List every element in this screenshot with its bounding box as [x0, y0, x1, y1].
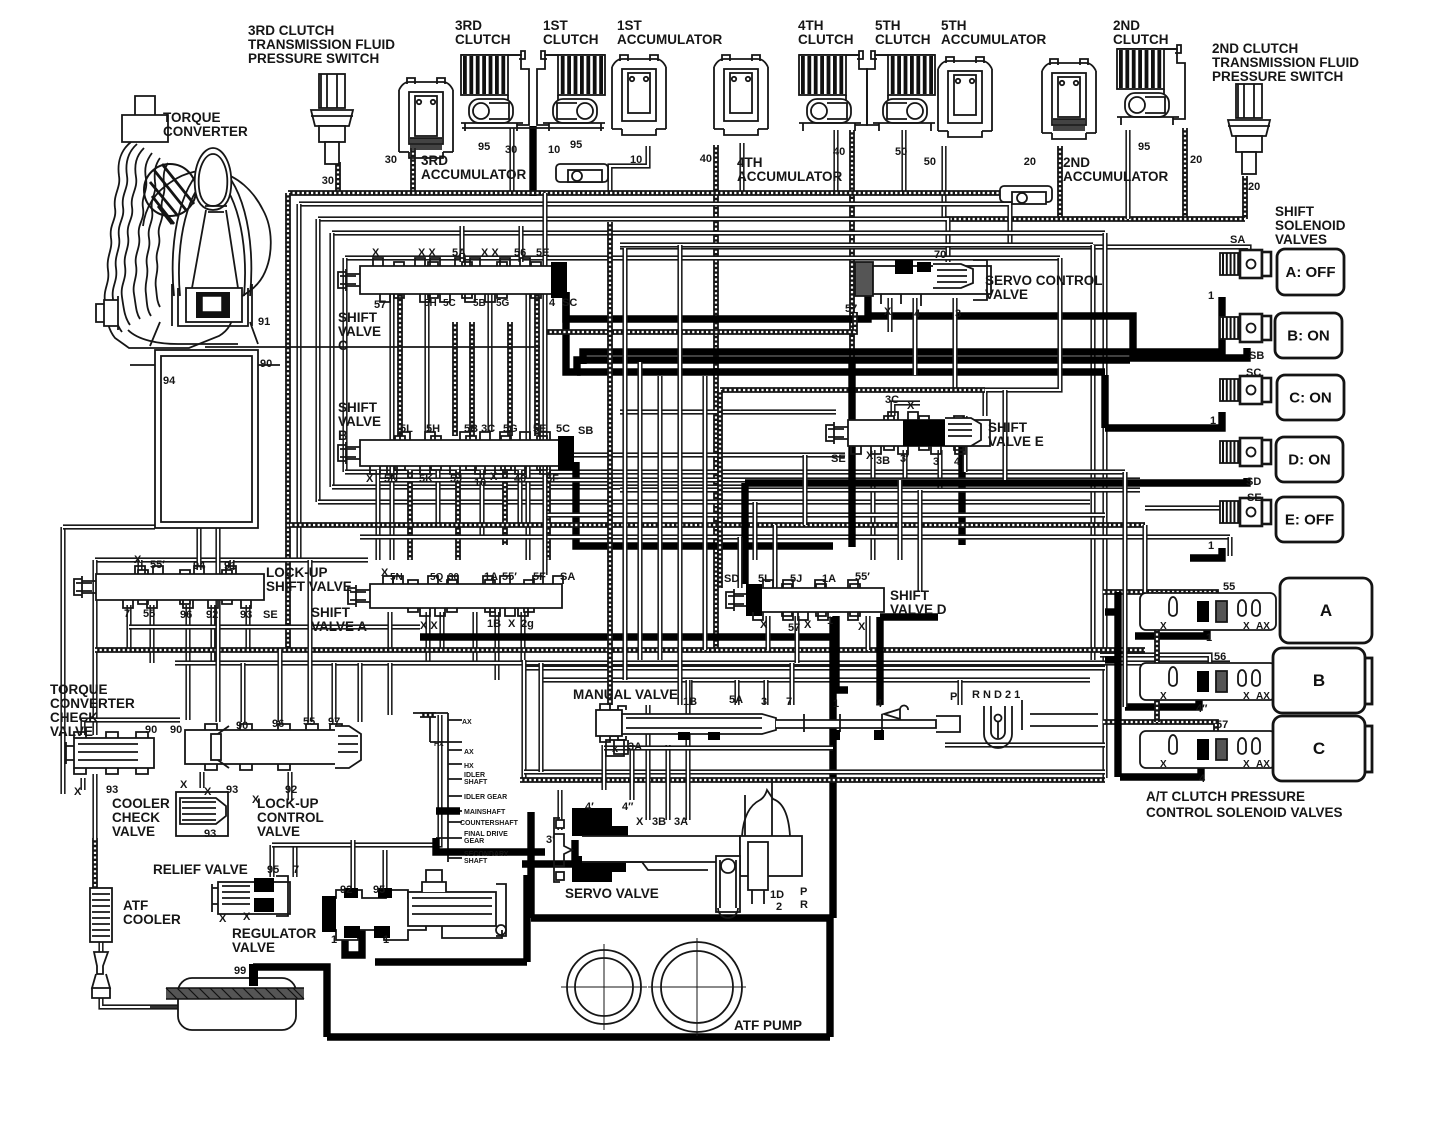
svg-text:SB: SB: [578, 425, 593, 437]
wire SD heavy drop: [741, 483, 748, 584]
wire 2nd pressure switch drop: [1242, 176, 1248, 219]
wire valve C drop 5: [534, 292, 540, 436]
svg-text:X: X: [866, 450, 874, 462]
svg-text:1: 1: [1206, 632, 1212, 644]
svg-text:30: 30: [322, 175, 334, 187]
wire SC heavy staircase: [566, 292, 1130, 372]
svg-text:SD: SD: [724, 573, 739, 585]
wire hatch 390: [720, 387, 985, 393]
wire center vertical 660: [657, 376, 662, 660]
svg-text:X: X: [204, 786, 212, 798]
wire lockup 94 port: [196, 528, 201, 570]
svg-text:X: X: [508, 618, 516, 630]
wire reg 92: [350, 840, 355, 895]
svg-text:99: 99: [234, 965, 246, 977]
wire valve D drop 2: [794, 616, 799, 663]
svg-text:95: 95: [373, 884, 385, 896]
svg-text:20: 20: [1248, 181, 1260, 193]
wire valve A bottom 0: [387, 612, 392, 650]
svg-text:5C: 5C: [443, 298, 456, 309]
svg-text:2g: 2g: [521, 618, 534, 630]
wire servo 4 drop b: [629, 745, 634, 800]
wire servo drop 3a: [685, 680, 690, 820]
wire bus 472: [345, 469, 1125, 474]
svg-text:3A: 3A: [628, 741, 642, 753]
shift valve A: [348, 576, 563, 616]
wire valve C drop 1: [397, 292, 403, 436]
svg-text:1A: 1A: [484, 571, 498, 583]
wire heavy bus 637: [420, 633, 833, 640]
wire valve B drop 3: [435, 470, 440, 525]
wire solenoid C 1 feed: [1105, 412, 1222, 428]
svg-text:HX: HX: [434, 741, 444, 748]
wire servo frame right heavy: [829, 617, 836, 918]
svg-text:94: 94: [163, 375, 176, 387]
svg-text:ATF PUMP: ATF PUMP: [734, 1018, 802, 1033]
svg-text:P: P: [800, 886, 807, 898]
svg-text:3: 3: [933, 456, 939, 468]
svg-text:10: 10: [630, 154, 642, 166]
wire 5th clutch drop a: [849, 130, 855, 360]
svg-text:5H: 5H: [426, 423, 440, 435]
wire SA feed bus: [620, 247, 1249, 262]
wire pump to servo frame: [826, 918, 833, 1037]
shift valve D: [726, 580, 884, 620]
wire tank bottom link: [63, 524, 155, 529]
wire valve D heavy 1: [836, 616, 848, 690]
svg-text:40: 40: [514, 473, 526, 485]
wire bus 502: [318, 499, 1090, 504]
svg-text:X: X: [1243, 621, 1250, 632]
wire hatch bus 525: [290, 522, 1145, 528]
solenoid box E: [1276, 497, 1343, 542]
solenoid SC: [1220, 376, 1271, 404]
wire gear feed vertical: [447, 713, 449, 862]
wire servo drop 3b: [665, 745, 670, 820]
svg-text:SE: SE: [1247, 492, 1262, 504]
wire left frame vertical: [60, 527, 65, 794]
wire relief 7: [292, 845, 297, 877]
svg-text:95: 95: [570, 139, 582, 151]
svg-text:20: 20: [1024, 156, 1036, 168]
svg-text:5Q: 5Q: [430, 572, 444, 583]
svg-text:92: 92: [285, 784, 297, 796]
accumulator 2nd: [1042, 59, 1096, 139]
svg-text:4′: 4′: [585, 801, 594, 813]
svg-text:5B 3C: 5B 3C: [464, 423, 495, 435]
wire bus 480: [380, 477, 1140, 482]
A/T pressure control valve B: [1140, 663, 1276, 700]
wire bus 5: [620, 242, 1093, 247]
solenoid box A: [1277, 249, 1344, 295]
svg-text:5G: 5G: [496, 298, 510, 309]
ATF pump: [561, 938, 746, 1036]
manual valve: [596, 704, 960, 754]
wire valve C drop 7: [487, 292, 492, 432]
svg-text:5H: 5H: [424, 298, 437, 309]
solenoid box D: [1276, 437, 1343, 482]
svg-text:93: 93: [240, 609, 252, 621]
wire right vertical 1157: [1154, 592, 1160, 722]
svg-text:4: 4: [1199, 773, 1206, 785]
wire bottom bus: [327, 1033, 830, 1040]
wire clutch shelf: [462, 127, 604, 129]
svg-text:X: X: [180, 779, 188, 791]
wire right vertical 1125: [1122, 472, 1127, 707]
wire bus 4: [332, 230, 1105, 235]
svg-text:4: 4: [954, 456, 961, 468]
wire servo 4 drop a: [601, 745, 606, 790]
svg-text:X X: X X: [420, 620, 438, 632]
svg-text:X X: X X: [418, 247, 436, 259]
svg-text:91: 91: [224, 560, 236, 572]
wire center vertical 900: [897, 480, 902, 560]
svg-text:3B: 3B: [652, 816, 666, 828]
wire final drive heavy: [436, 838, 545, 852]
wire 56 feed: [1100, 655, 1210, 668]
wire valve B drop 8: [545, 470, 551, 560]
svg-text:30: 30: [505, 144, 517, 156]
A/T pressure control valve box C: [1273, 716, 1372, 781]
svg-text:4″: 4″: [1196, 703, 1208, 715]
wire heavy 372: [577, 368, 1105, 375]
wire valve C drop 6: [424, 292, 429, 432]
wire SA long vertical: [542, 193, 547, 575]
wire valve A bottom 1B: [494, 612, 499, 680]
svg-text:B: ON: B: ON: [1287, 328, 1330, 345]
svg-text:X X: X X: [481, 247, 499, 259]
wire drop to E: [1227, 537, 1232, 556]
svg-text:C: C: [1313, 739, 1325, 758]
wire valve D drop 3: [865, 616, 870, 650]
wire vertical 360 down: [357, 663, 362, 722]
wire relief 95: [269, 845, 274, 877]
wire lockup 91 port: [229, 560, 234, 570]
svg-text:4: 4: [876, 698, 883, 710]
wire left vertical 3: [315, 219, 320, 502]
svg-text:95: 95: [1138, 141, 1150, 153]
svg-text:SE: SE: [263, 609, 278, 621]
shift valve E actuator: [903, 418, 981, 446]
svg-text:55′: 55′: [502, 571, 517, 583]
wire top bus 2: [299, 204, 1010, 247]
wire hatch vertical 720: [717, 390, 723, 588]
svg-text:50: 50: [924, 156, 936, 168]
wire manual 7 port: [789, 663, 794, 705]
wire tc check feed: [83, 720, 180, 735]
wire 99 link: [253, 967, 327, 1037]
svg-text:95: 95: [267, 864, 279, 876]
svg-text:5L: 5L: [400, 423, 413, 435]
svg-text:x: x: [612, 743, 619, 755]
wire bus 745: [945, 742, 1105, 747]
svg-text:5G: 5G: [503, 423, 518, 435]
wire 1st accumulator drop: [610, 146, 648, 193]
svg-text:X: X: [366, 473, 374, 485]
wire 1st clutch drop: [529, 126, 536, 196]
99 stub: [249, 964, 258, 986]
A/T pressure control valve A: [1140, 593, 1276, 630]
wire valve E top port: [962, 416, 967, 472]
torque converter check valve: [66, 732, 154, 774]
svg-text:A: A: [1320, 601, 1332, 620]
svg-text:90: 90: [145, 724, 157, 736]
svg-text:5A: 5A: [452, 247, 466, 259]
wire valve C top port 2: [518, 226, 523, 262]
svg-text:56: 56: [514, 247, 526, 259]
wire cooler feed hatch: [92, 838, 98, 888]
svg-text:56: 56: [1214, 651, 1226, 663]
wire A heavy 1: [1135, 625, 1207, 636]
wire valve C drop 4: [507, 322, 513, 436]
wire bus 772: [524, 769, 1105, 774]
wire 4th accumulator drop: [739, 143, 744, 193]
svg-text:5F: 5F: [533, 571, 546, 583]
wire bus 748: [604, 745, 833, 750]
svg-text:55: 55: [1223, 581, 1235, 593]
accumulator 4th: [714, 55, 768, 135]
wire lc port 55: [307, 560, 312, 722]
wire 57 hatch to servo control: [545, 312, 855, 332]
shift valve E: [826, 412, 990, 454]
servo control valve: [855, 260, 991, 306]
svg-text:57: 57: [374, 299, 386, 311]
svg-text:5J: 5J: [790, 573, 802, 585]
wire hx corner: [420, 712, 436, 718]
svg-text:40: 40: [700, 153, 712, 165]
svg-text:10: 10: [474, 477, 486, 489]
svg-text:57: 57: [845, 303, 857, 315]
svg-text:X: X: [907, 400, 915, 412]
wire reg port 1 u: [345, 930, 362, 955]
svg-text:2: 2: [776, 901, 782, 913]
svg-text:3C: 3C: [885, 394, 899, 406]
wire lc port 97: [331, 663, 336, 722]
wire bus 5c: [620, 255, 1060, 260]
wire left vertical hatch: [285, 193, 291, 648]
wire lockup bottom 55: [149, 605, 154, 663]
clutch 1st: [537, 51, 605, 131]
wire valve B drop 1: [375, 470, 380, 560]
svg-text:X: X: [858, 621, 866, 633]
wire SD to solenoid D: [745, 478, 1247, 483]
svg-text:7: 7: [786, 696, 792, 708]
A/T pressure control valve box A: [1280, 578, 1372, 643]
wire left vertical 4: [329, 233, 334, 487]
svg-text:30: 30: [448, 572, 460, 583]
wire SB heavy run: [576, 462, 833, 546]
clutch 2nd: [1117, 45, 1185, 125]
wire heavy vertical 852: [848, 362, 855, 547]
wire valve E drop 2: [870, 450, 875, 560]
wire lc port 96: [277, 650, 282, 722]
svg-text:MANUAL VALVE: MANUAL VALVE: [573, 687, 678, 702]
wire valve E drop 4: [937, 450, 942, 490]
svg-text:5E: 5E: [533, 423, 546, 435]
wire relief top link: [272, 715, 440, 845]
svg-text:5C: 5C: [556, 423, 570, 435]
svg-text:1: 1: [827, 615, 833, 627]
svg-text:96: 96: [180, 609, 192, 621]
wire funnel to pan: [101, 998, 178, 1007]
wire cooler to funnel: [98, 942, 103, 952]
solenoid SA: [1220, 250, 1271, 278]
svg-text:93: 93: [204, 828, 216, 840]
svg-text:5A: 5A: [729, 694, 743, 706]
wire valve E SE drop: [849, 450, 854, 490]
wire servo ctl port 3: [952, 298, 957, 390]
svg-text:IDLER GEAR: IDLER GEAR: [464, 794, 507, 801]
svg-text:1: 1: [833, 698, 839, 710]
svg-text:AX: AX: [1256, 621, 1270, 632]
svg-text:1B: 1B: [487, 618, 501, 630]
svg-text:1: 1: [1210, 415, 1216, 427]
svg-text:X: X: [636, 816, 644, 828]
wire gear stub up: [429, 713, 431, 742]
solenoid SD: [1220, 438, 1271, 466]
svg-text:96: 96: [272, 718, 284, 730]
svg-text:3′: 3′: [546, 834, 555, 846]
svg-text:X: X: [1160, 759, 1167, 770]
wire bus 5b: [345, 255, 620, 260]
wire bus 627: [129, 624, 420, 629]
wire gear stubs: [413, 713, 462, 858]
svg-text:97: 97: [328, 716, 340, 728]
svg-text:X: X: [884, 306, 892, 318]
svg-text:B: B: [1313, 671, 1325, 690]
wire lockup bottom 93: [245, 605, 250, 650]
svg-text:57: 57: [1216, 719, 1228, 731]
svg-text:5B: 5B: [473, 298, 486, 309]
svg-text:90: 90: [170, 724, 182, 736]
clutch 4th: [799, 51, 867, 131]
svg-text:92: 92: [206, 609, 218, 621]
wire center vertical 755: [752, 502, 757, 560]
svg-text:90: 90: [260, 358, 272, 370]
wire 3rd accumulator drop: [410, 148, 416, 193]
wire vertical 390 down: [387, 663, 392, 715]
svg-text:1D: 1D: [770, 889, 784, 901]
accumulator 1st: [612, 55, 666, 135]
wire center vertical 680: [677, 245, 682, 705]
wire heavy feed vertical: [1114, 592, 1121, 777]
svg-text:SC: SC: [562, 297, 577, 309]
wire right vertical 1145: [1142, 525, 1147, 592]
svg-text:X: X: [1243, 759, 1250, 770]
wire valve B drop 2: [407, 470, 413, 560]
wire solenoid E 1: [1190, 548, 1222, 558]
wire left vertical to cooler check: [92, 774, 97, 838]
wire bus 680: [540, 677, 1090, 682]
wire lc port 90: [240, 663, 245, 722]
solenoid SB: [1220, 314, 1271, 342]
wire heavy link 880: [880, 613, 938, 620]
ATF cooler: [90, 888, 112, 942]
svg-text:X: X: [760, 619, 768, 631]
wire long right vertical: [1102, 233, 1107, 778]
svg-text:3: 3: [955, 308, 961, 320]
wire valve C long drop 2: [525, 292, 530, 560]
svg-text:A: OFF: A: OFF: [1286, 264, 1336, 281]
wire left vertical 5: [342, 258, 347, 472]
svg-text:1: 1: [331, 934, 337, 946]
wire servo 3 drop: [557, 790, 562, 830]
wire reg 95: [382, 850, 387, 895]
wire manual 4 heavy: [876, 617, 883, 705]
svg-text:X: X: [1243, 691, 1250, 702]
solenoid box C: [1277, 375, 1344, 420]
svg-text:3B: 3B: [876, 455, 890, 467]
wire servo drop x: [645, 705, 650, 820]
A/T pressure control valve C: [1140, 731, 1276, 768]
wire center vertical 740: [737, 537, 742, 588]
wire valve B drop 4: [455, 470, 461, 560]
wire center vertical 805: [802, 455, 807, 525]
shift valve C: [338, 258, 567, 302]
svg-text:D: ON: D: ON: [1288, 452, 1331, 469]
wire stub a: [1105, 608, 1118, 615]
cooler funnel: [92, 952, 110, 998]
svg-text:4: 4: [549, 297, 556, 309]
wire center vertical 920: [917, 490, 922, 592]
wire 3C loop: [893, 403, 920, 416]
wire manual 1B port: [687, 680, 692, 705]
wire lockup bottom 96: [185, 605, 190, 720]
wire valve C top port 1: [459, 226, 464, 262]
svg-text:AX: AX: [462, 719, 472, 726]
wire stub b: [1105, 656, 1118, 663]
svg-text:91: 91: [258, 316, 270, 328]
wire valve B drop 5: [479, 470, 484, 537]
wire manual 5A port: [734, 680, 739, 705]
clutch 3rd: [461, 51, 529, 131]
wire center vertical 640: [637, 362, 642, 660]
svg-text:1B: 1B: [683, 696, 697, 708]
svg-text:4: 4: [914, 308, 921, 320]
wire valve B drop 6: [502, 470, 508, 545]
wire 3rd clutch drop: [509, 128, 514, 193]
pressure switch 3rd clutch: [311, 74, 353, 164]
svg-text:5L: 5L: [758, 573, 771, 585]
svg-text:55: 55: [303, 716, 315, 728]
svg-text:5N: 5N: [390, 572, 403, 583]
wire lockup top port: [137, 560, 142, 570]
wire long center vertical hatch: [607, 222, 613, 705]
wire bus 663: [175, 660, 1230, 665]
wire C heavy 4: [1120, 768, 1201, 777]
wire manual 3 port: [763, 680, 768, 705]
wire reg frame right: [523, 875, 530, 962]
wire valve C frame top: [318, 219, 948, 262]
svg-text:5E: 5E: [536, 247, 549, 259]
svg-text:7: 7: [124, 608, 130, 620]
wire valve E heavy 4 drop: [958, 446, 965, 545]
wire tank to lockup control: [215, 528, 220, 722]
wire servo control to solenoid B: [868, 316, 1247, 358]
svg-text:X: X: [1160, 621, 1167, 632]
svg-text:1: 1: [1208, 290, 1214, 302]
svg-text:5K: 5K: [419, 473, 433, 485]
check ball 1: [556, 164, 608, 182]
wire left vertical 2: [296, 204, 301, 560]
svg-text:4″: 4″: [622, 801, 634, 813]
wire vertical 541: [538, 663, 543, 772]
svg-text:X: X: [372, 247, 380, 259]
wire servo frame bottom: [531, 914, 833, 921]
wire 5th accumulator drop: [941, 146, 946, 219]
svg-text:X: X: [381, 567, 389, 579]
svg-text:AX: AX: [464, 749, 474, 756]
